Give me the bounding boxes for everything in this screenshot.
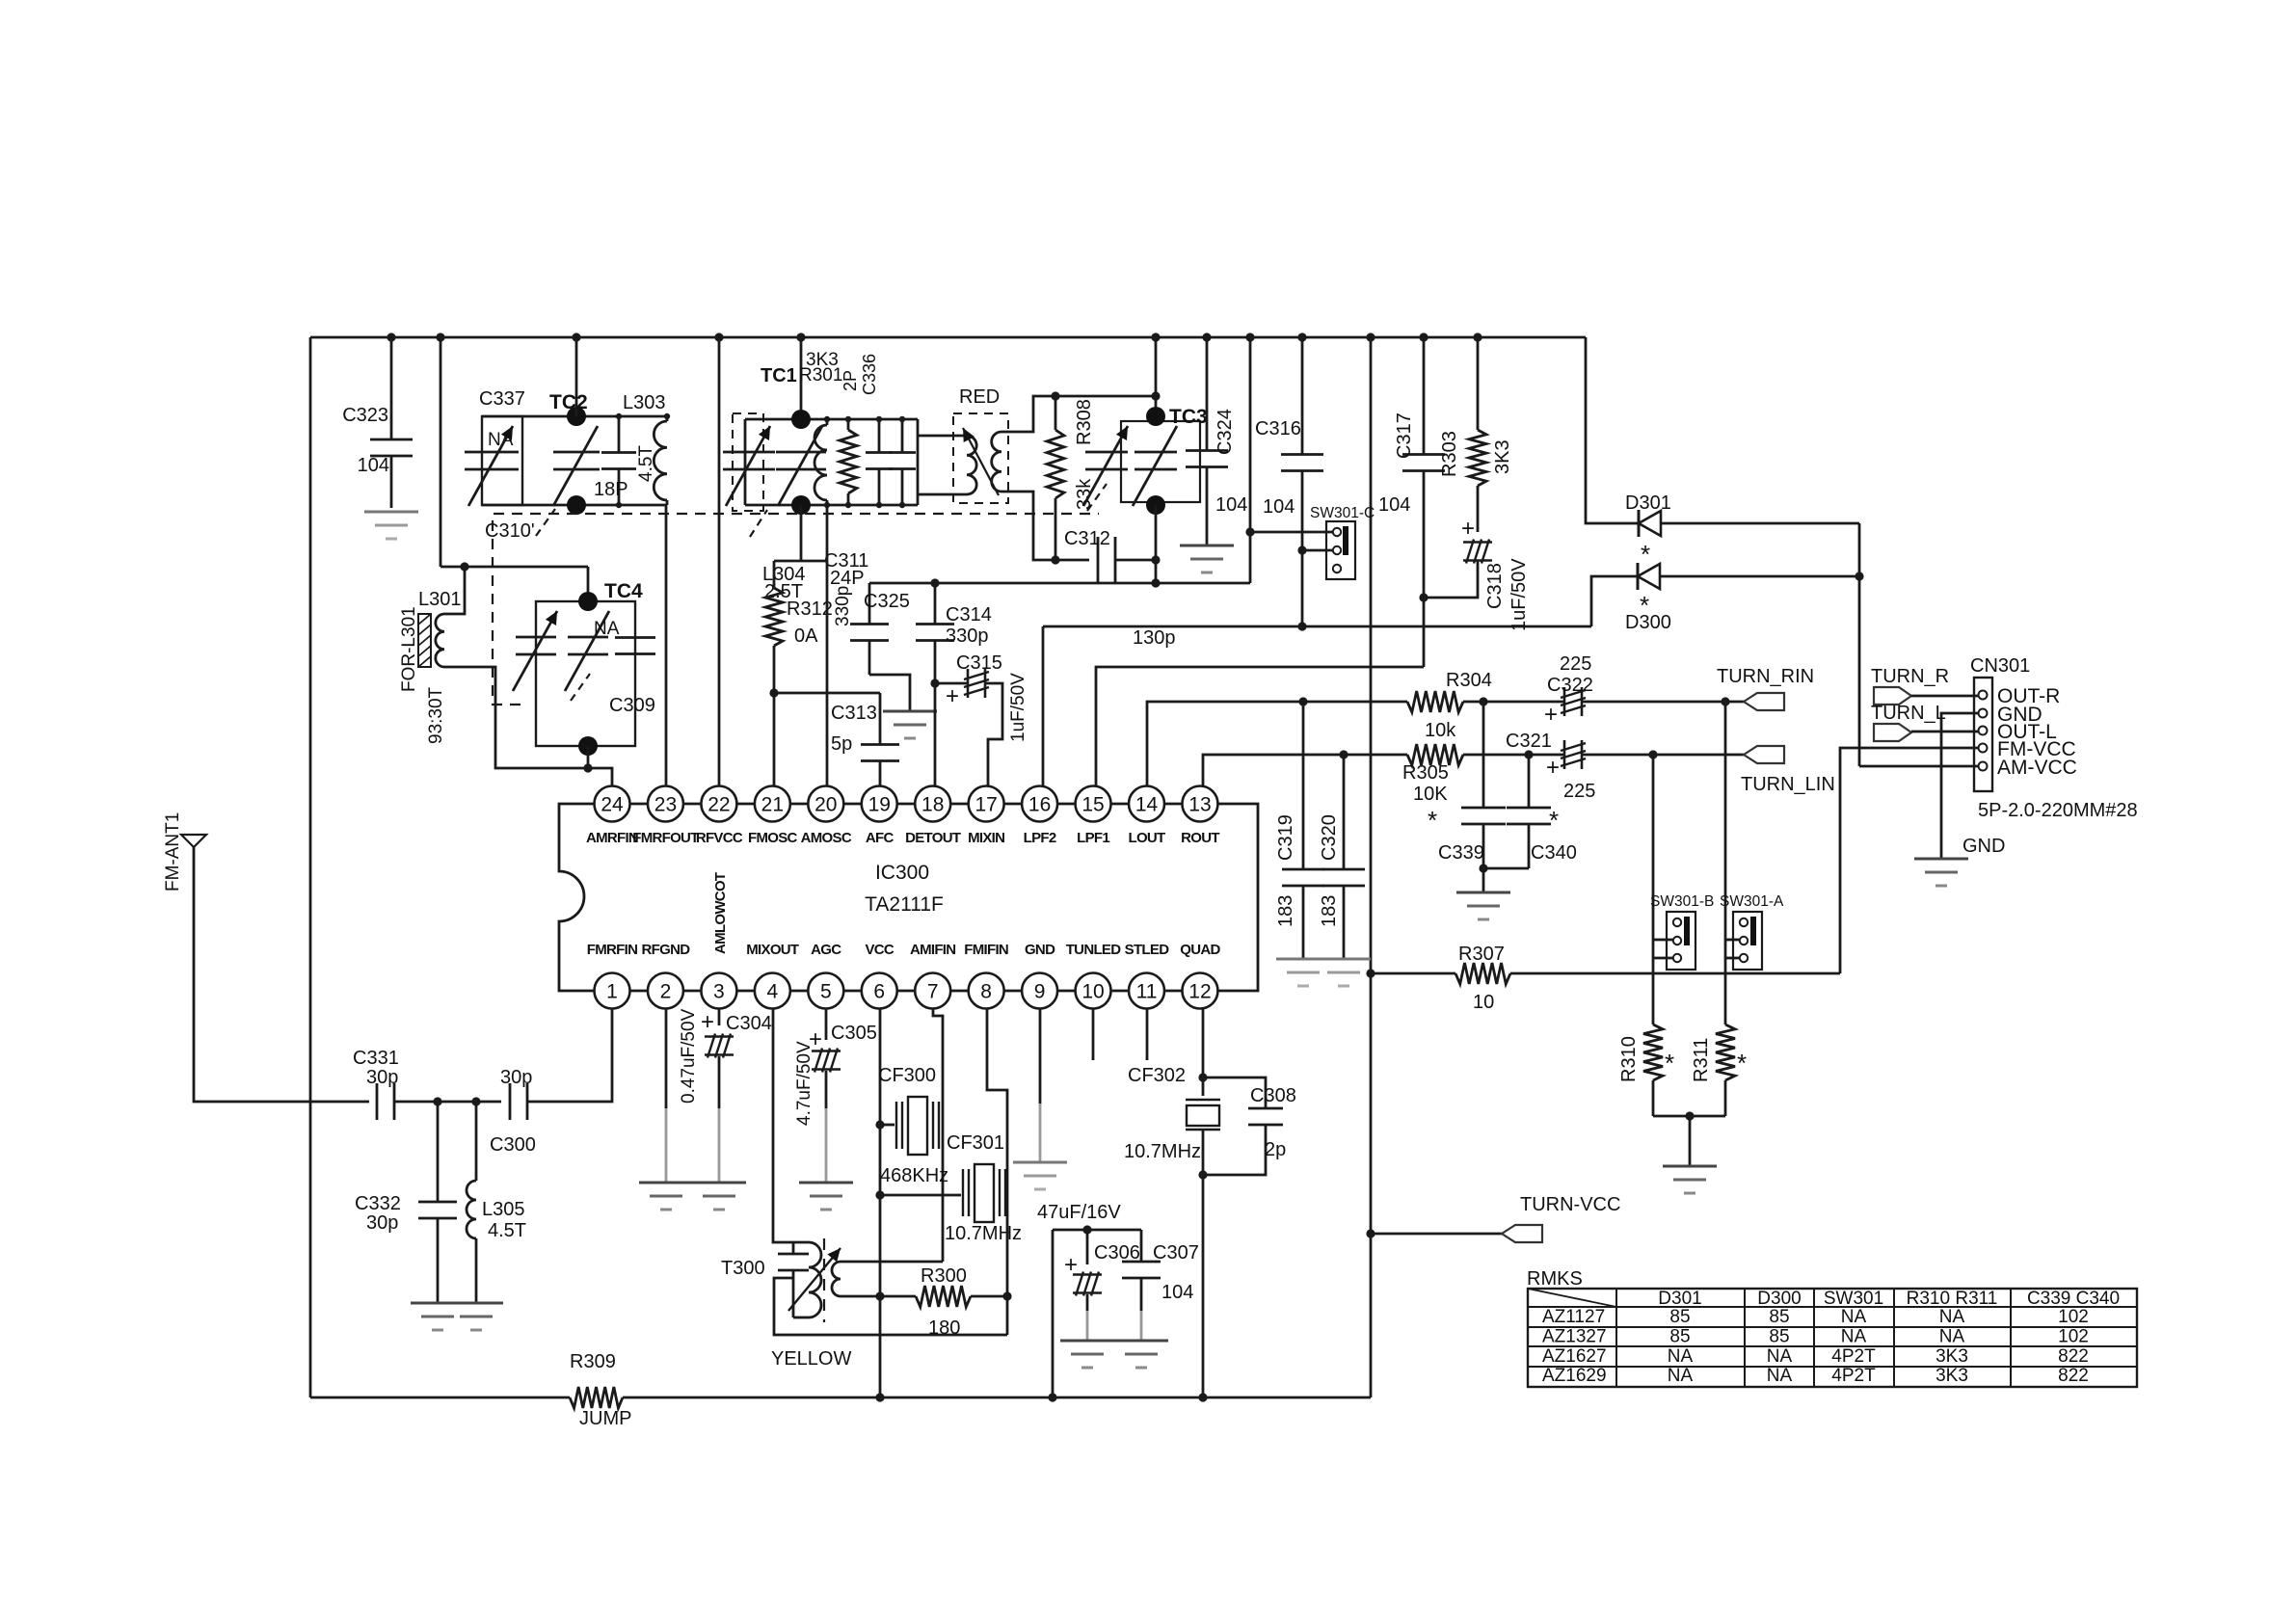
wire T300 tap xyxy=(774,1278,1007,1335)
trimmer capacitor C337 xyxy=(465,451,519,454)
resistor R301 xyxy=(847,419,850,430)
capacitor C324 xyxy=(1206,337,1209,450)
wire C321 to TURN_LIN xyxy=(1582,754,1744,757)
wire TC4/L301 top horizontal xyxy=(441,566,588,569)
svg-text:18: 18 xyxy=(921,794,944,816)
svg-text:822: 822 xyxy=(2058,1346,2089,1367)
svg-text:8: 8 xyxy=(980,981,992,1003)
svg-text:DETOUT: DETOUT xyxy=(905,830,961,846)
node TC3 top xyxy=(1146,407,1165,426)
wire D300 branch xyxy=(1591,576,1638,626)
wire C300 to pin1 xyxy=(527,1008,612,1102)
svg-text:18P: 18P xyxy=(594,479,628,500)
switch SW301-A xyxy=(1733,912,1762,970)
wire pin4 MIXOUT to T300 xyxy=(773,1008,809,1242)
wire TC1 tank top xyxy=(745,418,918,421)
svg-text:R309: R309 xyxy=(570,1351,616,1372)
ground CN301 xyxy=(1914,858,1968,861)
wire R300 to FMIFIN xyxy=(971,1295,1007,1298)
node TC1 bottom xyxy=(791,495,811,515)
svg-text:2: 2 xyxy=(660,981,672,1003)
svg-text:822: 822 xyxy=(2058,1366,2089,1386)
svg-text:AFC: AFC xyxy=(866,830,894,846)
pin 24 AMRFIN xyxy=(595,786,630,822)
svg-text:T300: T300 xyxy=(721,1258,765,1279)
svg-text:3K3: 3K3 xyxy=(1492,439,1513,474)
svg-text:LPF2: LPF2 xyxy=(1024,830,1056,846)
svg-text:1uF/50V: 1uF/50V xyxy=(1008,673,1028,742)
resistor R303 xyxy=(1477,337,1480,430)
svg-text:0A: 0A xyxy=(794,625,818,647)
pin 16 LPF2 xyxy=(1022,786,1057,822)
svg-text:ROUT: ROUT xyxy=(1181,830,1219,846)
capacitor 18P xyxy=(618,416,621,452)
ground pin9 xyxy=(1013,1161,1067,1164)
transformer T300 capacitor xyxy=(792,1242,795,1254)
pin 10 TUNLED xyxy=(1076,973,1111,1009)
svg-text:NA: NA xyxy=(1841,1307,1867,1327)
svg-text:C336: C336 xyxy=(860,354,879,395)
capacitor C300 xyxy=(509,1083,512,1120)
svg-text:183: 183 xyxy=(1319,895,1340,927)
wire top power rail xyxy=(310,336,1586,339)
svg-text:C308: C308 xyxy=(1250,1085,1296,1106)
wire SW301-C middle pin xyxy=(1302,549,1333,552)
wire pin16 LPF2 stub xyxy=(1042,626,1045,786)
capacitor C312 xyxy=(1097,537,1100,583)
svg-text:AMOSC: AMOSC xyxy=(801,830,852,846)
svg-text:22: 22 xyxy=(707,794,730,816)
wire LPF2 net horizontal xyxy=(1043,625,1591,628)
wire oscillator jog xyxy=(774,560,827,563)
trimmer capacitor TC4 left xyxy=(516,636,556,639)
svg-text:11: 11 xyxy=(1136,981,1158,1003)
resistor R300 xyxy=(916,1286,971,1307)
svg-text:R310 R311: R310 R311 xyxy=(1907,1289,1998,1309)
svg-text:C337: C337 xyxy=(479,388,525,410)
svg-text:6: 6 xyxy=(873,981,885,1003)
svg-text:TURN-VCC: TURN-VCC xyxy=(1520,1194,1620,1215)
capacitor C305 electrolytic xyxy=(825,1008,828,1040)
wire R310 R311 common xyxy=(1653,1115,1725,1118)
trimmer box TC4 xyxy=(536,601,635,746)
svg-text:NA: NA xyxy=(1767,1366,1793,1386)
svg-text:0.47uF/50V: 0.47uF/50V xyxy=(679,1008,699,1104)
svg-text:R310: R310 xyxy=(1618,1036,1640,1082)
svg-text:D300: D300 xyxy=(1757,1289,1801,1309)
tuning gang dashed link xyxy=(493,514,1099,705)
svg-text:GND: GND xyxy=(1962,836,2005,857)
svg-text:1uF/50V: 1uF/50V xyxy=(1508,558,1530,631)
svg-text:RFGND: RFGND xyxy=(642,942,691,958)
trimmer capacitor TC3 xyxy=(1135,451,1177,454)
wire TC1 tank right edge xyxy=(917,419,920,505)
svg-text:AMIFIN: AMIFIN xyxy=(910,942,955,958)
wire TC4 feed vertical xyxy=(440,337,442,567)
wire DETOUT riser xyxy=(1249,337,1252,583)
svg-text:+: + xyxy=(1544,702,1558,728)
capacitor C332 xyxy=(437,1102,440,1202)
diode D301 xyxy=(1638,510,1641,537)
svg-text:CF300: CF300 xyxy=(878,1065,936,1086)
svg-text:3K3: 3K3 xyxy=(1936,1366,1968,1386)
capacitor C322 electrolytic xyxy=(1563,687,1566,716)
svg-text:C318: C318 xyxy=(1484,563,1506,609)
svg-text:30p: 30p xyxy=(500,1067,532,1088)
trimmer box TC3 xyxy=(1121,421,1200,502)
svg-text:12: 12 xyxy=(1188,981,1211,1003)
wire RED primary top xyxy=(918,435,967,438)
svg-text:+: + xyxy=(946,683,959,709)
svg-text:C325: C325 xyxy=(864,591,910,612)
svg-text:AZ1127: AZ1127 xyxy=(1542,1307,1605,1327)
wire pin12 QUAD xyxy=(1202,1008,1205,1096)
pin 15 LPF1 xyxy=(1076,786,1111,822)
svg-text:C340: C340 xyxy=(1531,842,1577,864)
svg-text:1: 1 xyxy=(606,981,618,1003)
resistor R307 xyxy=(1371,972,1455,975)
svg-text:NA: NA xyxy=(1668,1346,1694,1367)
pin 14 LOUT xyxy=(1129,786,1164,822)
svg-text:TURN_L: TURN_L xyxy=(1871,703,1946,724)
svg-text:AGC: AGC xyxy=(811,942,841,958)
trimmer capacitor TC4 NA xyxy=(568,636,608,639)
svg-text:17: 17 xyxy=(974,794,997,816)
svg-text:24P: 24P xyxy=(830,568,865,589)
svg-text:102: 102 xyxy=(2058,1326,2089,1346)
svg-text:L301: L301 xyxy=(418,589,462,610)
ground C319 xyxy=(1276,958,1330,961)
svg-text:93:30T: 93:30T xyxy=(426,686,446,744)
antenna FM-ANT1 xyxy=(181,835,206,847)
wire SW301-B middle pin xyxy=(1653,939,1673,942)
svg-text:85: 85 xyxy=(1769,1307,1789,1327)
svg-text:C315: C315 xyxy=(956,652,1002,674)
svg-text:JUMP: JUMP xyxy=(579,1408,631,1429)
svg-text:FMRFIN: FMRFIN xyxy=(587,942,637,958)
wire GND pin xyxy=(1941,713,1978,859)
svg-text:TC2: TC2 xyxy=(549,391,588,413)
svg-text:15: 15 xyxy=(1081,794,1104,816)
wire TURN_RIN to SW301-A xyxy=(1724,702,1727,940)
pin 5 AGC xyxy=(808,973,843,1009)
capacitor C311 xyxy=(901,419,904,452)
ground C324 xyxy=(1180,545,1234,547)
resistor R309 xyxy=(570,1387,623,1408)
net flag TURN-VCC xyxy=(1502,1225,1542,1242)
transformer RED dashed box xyxy=(953,413,1008,503)
wire RED primary bottom xyxy=(918,493,967,496)
svg-text:2p: 2p xyxy=(1265,1139,1286,1160)
capacitor C337 box xyxy=(482,416,522,505)
capacitor C321 electrolytic xyxy=(1563,740,1566,769)
wire TC1 tank left edge xyxy=(744,419,747,505)
svg-text:RED: RED xyxy=(959,386,1000,408)
wire C306 C307 top xyxy=(1053,1229,1141,1232)
wire R305 to C321 xyxy=(1463,754,1564,757)
resistor R310 xyxy=(1643,1024,1663,1080)
wire R304 to C322 xyxy=(1463,701,1564,704)
svg-text:TA2111F: TA2111F xyxy=(865,893,944,916)
svg-text:FM-ANT1: FM-ANT1 xyxy=(163,812,183,891)
capacitor C339 xyxy=(1482,702,1485,808)
svg-text:C331: C331 xyxy=(353,1048,399,1069)
ground C304 xyxy=(692,1182,746,1184)
svg-text:NA: NA xyxy=(1841,1326,1867,1346)
inductor L303 xyxy=(654,421,667,500)
wire SW301-A middle pin xyxy=(1725,939,1740,942)
net flag TURN_R xyxy=(1874,687,1911,705)
svg-text:C322: C322 xyxy=(1547,675,1593,696)
svg-text:R308: R308 xyxy=(1074,399,1095,445)
svg-text:*: * xyxy=(1737,1049,1747,1078)
IC U300 body xyxy=(559,804,1258,991)
svg-text:C319: C319 xyxy=(1275,814,1296,861)
svg-text:D300: D300 xyxy=(1625,612,1671,633)
wire TC1 to top rail xyxy=(800,337,803,419)
ground C332 xyxy=(411,1302,465,1305)
wire antenna feed xyxy=(194,847,369,1102)
svg-text:R301: R301 xyxy=(799,365,842,386)
wire C306 block left xyxy=(1052,1230,1055,1397)
svg-text:SW301-B: SW301-B xyxy=(1650,893,1714,910)
svg-text:R311: R311 xyxy=(1691,1038,1712,1082)
svg-text:R303: R303 xyxy=(1439,431,1460,477)
svg-text:MIXIN: MIXIN xyxy=(968,830,1004,846)
node TC2 tank joints xyxy=(616,413,622,419)
svg-text:+: + xyxy=(1461,516,1475,542)
pin 17 MIXIN xyxy=(969,786,1004,822)
ground C320 xyxy=(1317,958,1371,961)
trimmer dashed box TC1 xyxy=(733,413,763,511)
pin 3 AMLOWCOT xyxy=(701,973,736,1009)
ground C305 xyxy=(799,1182,853,1184)
svg-text:C313: C313 xyxy=(831,703,877,724)
node TC4 top xyxy=(578,592,598,611)
net flag TURN_RIN xyxy=(1744,693,1784,710)
capacitor C320 xyxy=(1343,755,1346,869)
svg-text:4: 4 xyxy=(767,981,779,1003)
wire pin15 LPF1 to C317 xyxy=(1096,667,1424,786)
capacitor C306 electrolytic xyxy=(1086,1230,1089,1264)
svg-text:NA: NA xyxy=(594,619,620,639)
transformer RED secondary xyxy=(992,432,1001,492)
svg-text:R300: R300 xyxy=(921,1265,967,1287)
svg-text:RMKS: RMKS xyxy=(1527,1268,1583,1290)
svg-text:C300: C300 xyxy=(490,1134,536,1156)
wire TC1 tank bottom xyxy=(745,504,918,507)
wire AFC jog xyxy=(774,692,880,695)
wire TURN_LIN to SW301-B xyxy=(1652,755,1655,940)
svg-text:FMOSC: FMOSC xyxy=(748,830,798,846)
svg-text:SW301-A: SW301-A xyxy=(1720,893,1784,910)
resistor R311 xyxy=(1716,1024,1735,1080)
svg-text:102: 102 xyxy=(2058,1307,2089,1327)
capacitor C336 xyxy=(878,419,881,452)
wire R304 net xyxy=(1303,701,1407,704)
wire SW301-B bottom to R310 xyxy=(1653,957,1673,960)
svg-text:C304: C304 xyxy=(726,1013,772,1034)
wire diode output vertical xyxy=(1858,523,1861,766)
transformer T300 secondary xyxy=(832,1262,841,1296)
wire pin23 FMRFOUT xyxy=(665,505,668,786)
svg-text:3K3: 3K3 xyxy=(1936,1346,1968,1367)
wire pin20 AMOSC xyxy=(826,505,829,786)
svg-text:2P: 2P xyxy=(841,370,860,391)
svg-text:30p: 30p xyxy=(366,1212,398,1234)
wire TURN_L to OUT-L xyxy=(1911,731,1978,733)
svg-text:10: 10 xyxy=(1081,981,1104,1003)
wire RED secondary bottom xyxy=(1001,492,1089,560)
svg-text:C314: C314 xyxy=(946,604,992,625)
trimmer capacitor TC3 left xyxy=(1085,451,1128,454)
pin 9 GND xyxy=(1022,973,1057,1009)
wire pin6 VCC vertical xyxy=(879,1008,882,1397)
diode D300 xyxy=(1637,563,1640,590)
pin 1 FMRFIN xyxy=(595,973,630,1009)
resistor R308 xyxy=(1055,396,1057,430)
wire pin13 ROUT to R305 xyxy=(1203,755,1344,786)
capacitor C318 electrolytic xyxy=(1477,486,1480,532)
capacitor TC4 right xyxy=(615,636,655,639)
pin 20 AMOSC xyxy=(808,786,843,822)
svg-text:10: 10 xyxy=(1473,992,1494,1013)
svg-text:C339: C339 xyxy=(1438,842,1484,864)
pin 6 VCC xyxy=(862,973,897,1009)
svg-text:IC300: IC300 xyxy=(875,862,929,884)
node TC2 bottom xyxy=(567,495,586,515)
capacitor C319 xyxy=(1302,702,1305,869)
switch SW301-B xyxy=(1667,912,1695,970)
svg-text:C332: C332 xyxy=(355,1193,401,1214)
svg-text:4.5T: 4.5T xyxy=(488,1220,526,1241)
svg-text:104: 104 xyxy=(1263,496,1295,518)
wire T300 secondary top xyxy=(841,1261,943,1264)
svg-text:RFVCC: RFVCC xyxy=(696,830,743,846)
node TC1 top xyxy=(791,410,811,429)
svg-text:85: 85 xyxy=(1669,1307,1690,1327)
svg-text:85: 85 xyxy=(1669,1326,1690,1346)
transformer RED primary xyxy=(967,436,976,494)
svg-text:183: 183 xyxy=(1275,895,1296,927)
svg-text:104: 104 xyxy=(1161,1282,1193,1303)
svg-text:C307: C307 xyxy=(1153,1242,1199,1264)
svg-text:CF301: CF301 xyxy=(947,1132,1004,1154)
svg-text:330p: 330p xyxy=(833,586,853,626)
svg-text:NA: NA xyxy=(1939,1307,1965,1327)
svg-text:30p: 30p xyxy=(366,1067,398,1088)
wire C340 to C339 bottom xyxy=(1483,867,1529,870)
svg-text:SW301-C: SW301-C xyxy=(1310,505,1375,521)
capacitor C331 xyxy=(376,1083,379,1120)
wire pin8 FMIFIN jog xyxy=(987,1008,1007,1335)
wire TC4 top stub xyxy=(587,567,590,601)
svg-text:TC4: TC4 xyxy=(604,580,643,602)
transformer T300 core dashed xyxy=(823,1238,825,1322)
svg-text:+: + xyxy=(1546,755,1560,781)
svg-text:5p: 5p xyxy=(831,733,852,755)
svg-text:C316: C316 xyxy=(1255,418,1301,439)
capacitor C315 electrolytic xyxy=(935,682,968,685)
pin 23 FMRFOUT xyxy=(648,786,683,822)
svg-text:23: 23 xyxy=(654,794,677,816)
svg-text:*: * xyxy=(1549,806,1559,835)
svg-text:D301: D301 xyxy=(1625,492,1671,514)
svg-text:20: 20 xyxy=(814,794,837,816)
svg-text:104: 104 xyxy=(358,455,389,476)
svg-text:CF302: CF302 xyxy=(1128,1065,1186,1086)
wire T300 secondary bottom to R300 xyxy=(841,1295,916,1298)
inductor L305 xyxy=(475,1102,478,1181)
svg-text:AM-VCC: AM-VCC xyxy=(1997,757,2077,779)
wire C322 to TURN_RIN xyxy=(1582,701,1744,704)
capacitor C316 xyxy=(1301,337,1304,454)
svg-text:MIXOUT: MIXOUT xyxy=(746,942,799,958)
svg-text:330p: 330p xyxy=(946,625,989,647)
inductor L301 xyxy=(436,614,444,667)
svg-text:85: 85 xyxy=(1769,1326,1789,1346)
svg-text:L305: L305 xyxy=(482,1199,525,1220)
svg-text:GND: GND xyxy=(1025,942,1055,958)
capacitor C340 xyxy=(1528,755,1531,808)
svg-text:NA: NA xyxy=(1767,1346,1793,1367)
svg-text:16: 16 xyxy=(1028,794,1051,816)
pin 21 FMOSC xyxy=(755,786,790,822)
wire TC4 bottom stub xyxy=(587,746,590,768)
node TC2 top xyxy=(567,407,586,426)
wire TURN_R to OUT-R xyxy=(1911,695,1978,698)
svg-text:24: 24 xyxy=(601,794,624,816)
ground C323 xyxy=(364,511,418,514)
svg-text:C323: C323 xyxy=(342,405,388,426)
node TC1 tank joints xyxy=(824,416,830,422)
wire R305 net xyxy=(1344,754,1407,757)
svg-text:+: + xyxy=(1064,1252,1078,1278)
wire L301 bottom to pin24 xyxy=(444,667,612,786)
net flag TURN_LIN xyxy=(1744,746,1784,763)
wire pin9 GND xyxy=(1039,1008,1042,1104)
svg-text:NA: NA xyxy=(1939,1326,1965,1346)
wire TC2 tank bottom xyxy=(482,504,667,507)
svg-text:CN301: CN301 xyxy=(1970,655,2030,677)
switch SW301-C xyxy=(1326,521,1355,579)
transformer RED arrow xyxy=(963,428,999,495)
svg-text:5: 5 xyxy=(820,981,832,1003)
svg-text:225: 225 xyxy=(1563,781,1595,802)
trimmer capacitor TC1 xyxy=(776,451,826,454)
svg-text:R304: R304 xyxy=(1446,670,1492,691)
wire TC2 to top rail xyxy=(575,337,578,416)
connector CN301 xyxy=(1974,678,1992,791)
wire TURN-VCC xyxy=(1371,1233,1502,1236)
svg-text:QUAD: QUAD xyxy=(1180,942,1220,958)
wire pin11 stub xyxy=(1146,1008,1149,1060)
capacitor C325 xyxy=(868,583,871,625)
svg-text:R305: R305 xyxy=(1402,762,1449,784)
ground R310 R311 xyxy=(1663,1165,1717,1168)
svg-text:10k: 10k xyxy=(1425,720,1456,741)
svg-text:TURN_LIN: TURN_LIN xyxy=(1741,774,1835,795)
svg-text:104: 104 xyxy=(1378,494,1410,516)
wire pin10 stub xyxy=(1092,1008,1095,1060)
inductor L304 xyxy=(814,425,827,500)
svg-text:YELLOW: YELLOW xyxy=(771,1348,851,1370)
svg-text:19: 19 xyxy=(868,794,891,816)
svg-text:+: + xyxy=(701,1009,714,1035)
svg-text:C312: C312 xyxy=(1064,528,1110,549)
wire D301 branch xyxy=(1586,337,1639,523)
trimmer capacitor TC2 xyxy=(553,451,600,454)
